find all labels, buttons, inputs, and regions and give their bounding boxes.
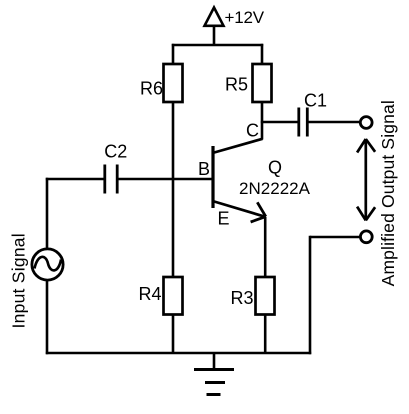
- wire C2 to base: [117, 178, 213, 181]
- ground: [194, 353, 234, 395]
- resistor R4: [164, 277, 183, 315]
- wire R5 bottom to collector node: [261, 102, 264, 140]
- resistor R6: [164, 64, 183, 102]
- wire R4 bottom: [172, 314, 175, 354]
- wire C1 to output terminal: [307, 121, 360, 124]
- svg-text:Amplified Output Signal: Amplified Output Signal: [378, 100, 398, 286]
- terminal lower output: [360, 231, 372, 243]
- wire R6 top: [172, 44, 175, 65]
- svg-text:C2: C2: [104, 142, 127, 162]
- svg-text:R5: R5: [225, 75, 248, 95]
- svg-text:R3: R3: [230, 288, 253, 308]
- svg-text:R4: R4: [138, 284, 161, 304]
- svg-text:C: C: [246, 121, 259, 141]
- wire R3 bottom: [264, 314, 267, 354]
- wire base: [46, 178, 105, 181]
- wire top rail: [172, 44, 263, 47]
- power symbol +12V: [205, 8, 224, 47]
- svg-text:+12V: +12V: [225, 8, 265, 27]
- wire R6 to R4 (bias divider): [172, 102, 175, 278]
- wire bottom rail: [46, 352, 311, 355]
- capacitor C1: [299, 108, 308, 137]
- svg-text:E: E: [217, 209, 229, 229]
- wire emitter to R3: [264, 217, 267, 278]
- source input signal: [32, 249, 63, 280]
- svg-text:Q: Q: [268, 158, 282, 178]
- svg-text:Input Signal: Input Signal: [9, 233, 29, 328]
- wire input branch lower: [46, 280, 49, 354]
- resistor R3: [256, 277, 275, 315]
- svg-text:R6: R6: [140, 79, 163, 99]
- terminal upper output: [360, 117, 372, 129]
- wire lower output branch horizontal: [310, 236, 361, 239]
- wire R5 top: [261, 44, 264, 65]
- wire collector node to C1: [261, 121, 299, 124]
- wire input branch upper: [46, 178, 49, 249]
- capacitor C2: [105, 165, 117, 194]
- resistor R5: [253, 64, 272, 102]
- svg-text:C1: C1: [304, 91, 327, 111]
- svg-text:B: B: [198, 159, 210, 179]
- svg-text:2N2222A: 2N2222A: [239, 179, 311, 198]
- transistor Q 2N2222A: [213, 139, 266, 222]
- arrow output range: [357, 139, 375, 220]
- wire lower output branch vertical: [309, 236, 312, 354]
